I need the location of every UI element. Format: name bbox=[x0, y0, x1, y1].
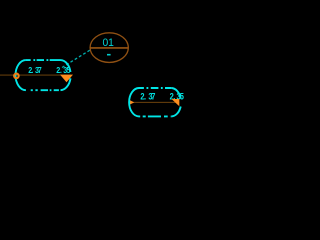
balloon chord line bbox=[90, 47, 128, 49]
balloon dash mark bbox=[107, 54, 111, 56]
slot pad 1 left elliptical cap bbox=[16, 60, 26, 90]
arrow handle triangle slot 1 bbox=[60, 75, 73, 83]
balloon circle 01 bbox=[90, 33, 128, 63]
dimension line slot 1 bbox=[0, 74, 71, 76]
dimension line slot 2 bbox=[130, 101, 180, 103]
slot pad 2 right elliptical cap lower bbox=[171, 107, 180, 117]
slot pad 2 right elliptical cap upper bbox=[171, 88, 180, 99]
leader dashed line from slot 1 to balloon 01 bbox=[62, 50, 90, 67]
right wedge handle slot 2 bbox=[172, 99, 180, 106]
slot pad 1 bottom edge dash-dot bbox=[26, 89, 61, 91]
slot pad 2 top edge dash-dot bbox=[139, 87, 171, 89]
svg-text:2.37: 2.37 bbox=[28, 65, 41, 75]
slot pad 1 right elliptical cap lower bbox=[61, 78, 71, 90]
origin ring marker slot 1 bbox=[14, 74, 19, 79]
slot pad 1 top edge dash-dot bbox=[26, 59, 61, 61]
svg-text:01: 01 bbox=[102, 37, 113, 49]
slot pad 2 left elliptical cap bbox=[129, 88, 139, 116]
slot pad 2 bottom edge dash-dot bbox=[139, 115, 171, 117]
left arrow handle slot 2 bbox=[130, 100, 135, 105]
slot pad 1 right elliptical cap upper bbox=[61, 60, 71, 72]
svg-text:2.37: 2.37 bbox=[140, 92, 155, 102]
